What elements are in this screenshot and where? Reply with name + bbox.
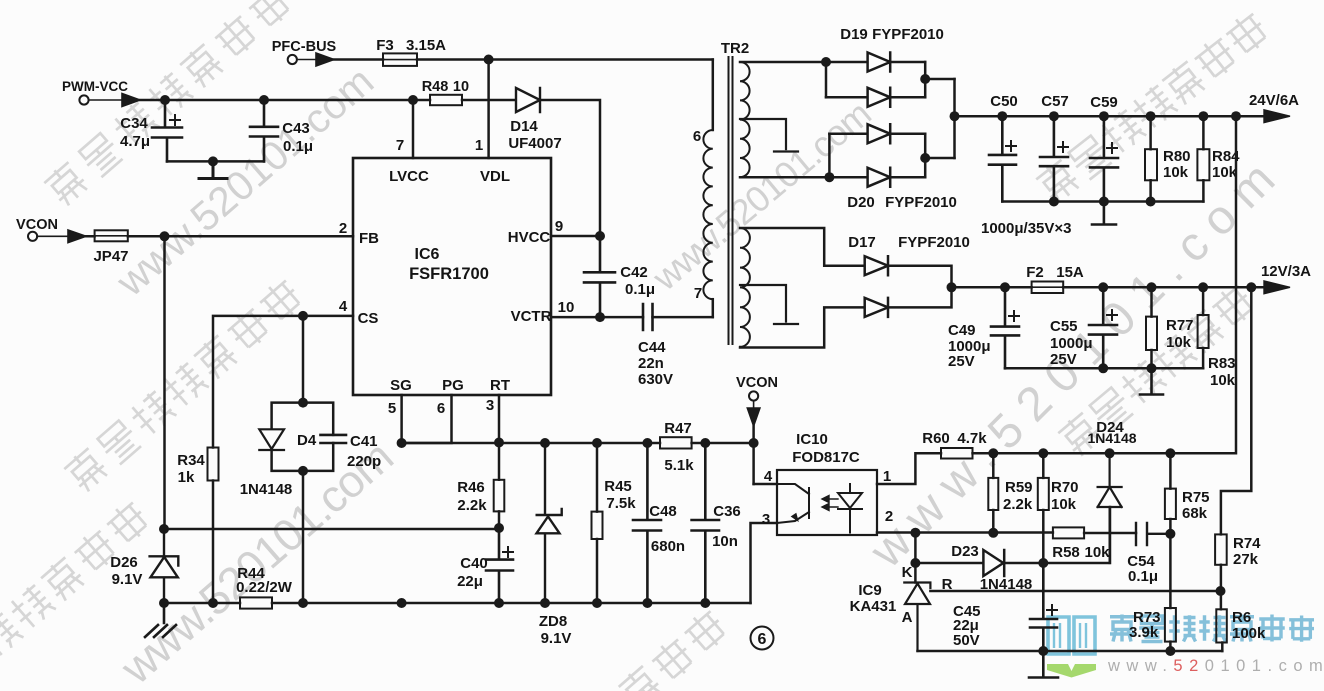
- node R75 top: [1165, 448, 1175, 458]
- wire JP47 to FB pin2: [86, 235, 353, 238]
- svg-text:R48: R48: [422, 79, 449, 95]
- resistor R70 10k: [1038, 453, 1079, 563]
- svg-text:C50: C50: [990, 93, 1018, 110]
- diode D14 UF4007: [508, 88, 561, 152]
- capacitor C43: [250, 100, 313, 161]
- svg-text:10k: 10k: [1166, 334, 1192, 351]
- svg-text:FYPF2010: FYPF2010: [885, 194, 957, 211]
- svg-text:1000μ: 1000μ: [1050, 335, 1093, 352]
- node FB-D26: [159, 524, 169, 534]
- svg-text:D4: D4: [297, 432, 317, 449]
- svg-text:C41: C41: [350, 433, 378, 450]
- svg-text:D14: D14: [510, 118, 538, 135]
- resistor R34 1k: [177, 448, 218, 604]
- ground below C34/C43: [199, 161, 227, 178]
- feedback top rail: [973, 116, 1237, 453]
- svg-text:1: 1: [475, 137, 483, 154]
- resistor R60 4.7k: [922, 430, 987, 459]
- svg-text:7: 7: [396, 137, 404, 154]
- svg-text:10k: 10k: [1051, 496, 1077, 513]
- node R84 top: [1198, 111, 1208, 121]
- svg-text:10: 10: [558, 299, 575, 316]
- node R80 top: [1146, 111, 1156, 121]
- watermark CJK top-left: [42, 0, 294, 208]
- transformer TR2 secondary 24V: [740, 62, 829, 177]
- svg-text:VDL: VDL: [480, 168, 510, 185]
- capacitor C54 0.1u: [1127, 523, 1170, 585]
- svg-text:0.22/2W: 0.22/2W: [236, 579, 293, 596]
- node pin7: [408, 95, 418, 105]
- diode D4 1N4148: [240, 429, 317, 498]
- svg-text:27k: 27k: [1233, 551, 1259, 568]
- svg-text:3.15A: 3.15A: [406, 37, 446, 54]
- node SG-row: [397, 438, 407, 448]
- svg-text:PG: PG: [442, 377, 464, 394]
- resistor R58 10k: [1052, 527, 1110, 561]
- capacitor C57: [1040, 93, 1069, 202]
- pin 7 stub: [412, 100, 415, 158]
- terminal VCON left: [16, 217, 58, 241]
- diode D23 1N4148: [951, 543, 1043, 593]
- blue CJK site name: [1110, 615, 1314, 642]
- rail nodes: [159, 598, 169, 608]
- svg-text:FOD817C: FOD817C: [792, 449, 860, 466]
- svg-text:2.2k: 2.2k: [1003, 496, 1033, 513]
- node C49 top: [1000, 282, 1010, 292]
- node C50 top: [997, 111, 1007, 121]
- resistor R73 3.9k: [1129, 534, 1176, 651]
- svg-text:R75: R75: [1182, 489, 1210, 506]
- node D4/C41 bottom: [298, 466, 308, 476]
- capacitor C50: [989, 93, 1018, 202]
- svg-text:4.7μ: 4.7μ: [120, 133, 150, 150]
- svg-text:1N4148: 1N4148: [1087, 430, 1136, 446]
- svg-text:1: 1: [883, 468, 891, 485]
- svg-text:HVCC: HVCC: [508, 229, 551, 246]
- wire 24V bus vertical: [953, 79, 956, 158]
- svg-text:R60: R60: [922, 430, 950, 447]
- node VDL branch: [484, 55, 494, 65]
- capacitor C48 680n: [633, 443, 685, 603]
- node C43 top: [259, 95, 269, 105]
- svg-text:6: 6: [437, 400, 445, 417]
- resistor R74 27k: [1215, 534, 1261, 591]
- node C59 top: [1099, 111, 1109, 121]
- node R77 top: [1147, 282, 1157, 292]
- svg-text:15A: 15A: [1056, 264, 1084, 281]
- svg-text:3: 3: [762, 511, 770, 528]
- IC6 FSFR1700 box: [353, 158, 552, 395]
- capacitor C34: [120, 100, 182, 161]
- svg-text:LVCC: LVCC: [389, 168, 429, 185]
- svg-text:R70: R70: [1051, 479, 1079, 496]
- node R59 top: [988, 448, 998, 458]
- node C36 top: [700, 438, 710, 448]
- svg-text:C43: C43: [282, 120, 310, 137]
- svg-text:C48: C48: [649, 503, 677, 520]
- resistor R75 68k: [1165, 453, 1210, 534]
- wire C34/C43 bottom link: [167, 160, 264, 163]
- svg-text:6: 6: [758, 631, 767, 648]
- arrow PFC-BUS: [297, 53, 334, 66]
- svg-text:JP47: JP47: [93, 248, 128, 265]
- svg-text:2: 2: [339, 220, 347, 237]
- svg-text:A: A: [902, 609, 913, 626]
- arrow 12V output: [1264, 281, 1290, 294]
- node D19 out: [920, 74, 930, 84]
- node K row: [910, 558, 920, 568]
- svg-text:D20: D20: [847, 194, 875, 211]
- wire R46-bottom long link: [164, 528, 499, 531]
- svg-text:FSFR1700: FSFR1700: [409, 265, 489, 283]
- pin 5 stub SG: [400, 395, 403, 443]
- capacitor C36 10n: [692, 443, 741, 603]
- diode D17a: [865, 256, 952, 287]
- primary ground rail: [164, 602, 751, 605]
- capacitor C45 22u 50V: [953, 563, 1057, 651]
- svg-text:PFC-BUS: PFC-BUS: [272, 39, 337, 55]
- wire IC10 pin3: [751, 523, 778, 603]
- node ZD8 top: [540, 438, 550, 448]
- wire D23 row to D24: [1043, 507, 1110, 563]
- pin 10 stub VCTR: [551, 316, 643, 319]
- node gnd tap: [208, 156, 218, 166]
- ground 12V: [1140, 368, 1163, 394]
- node R59 bottom: [988, 528, 998, 538]
- diode D17b: [865, 287, 952, 317]
- svg-text:C59: C59: [1090, 94, 1118, 111]
- svg-text:0.1μ: 0.1μ: [1128, 568, 1158, 585]
- wire R reference row: [930, 590, 1220, 593]
- chassis ground: [145, 603, 176, 637]
- 12V ground rail: [1005, 367, 1203, 370]
- svg-text:R80: R80: [1163, 148, 1191, 165]
- lower row y=443: [402, 442, 754, 445]
- node C34 top: [160, 95, 170, 105]
- logo book icon: [1048, 617, 1095, 654]
- svg-text:4.7k: 4.7k: [957, 430, 987, 447]
- svg-text:D23: D23: [951, 543, 979, 560]
- resistor R83 10k: [1198, 287, 1236, 389]
- node RT-row: [494, 438, 504, 448]
- node 12V sense: [1246, 282, 1256, 292]
- svg-text:FB: FB: [359, 230, 379, 247]
- svg-text:3: 3: [486, 397, 494, 414]
- resistor R59 2.2k: [988, 453, 1033, 533]
- svg-text:SG: SG: [390, 377, 412, 394]
- svg-text:IC10: IC10: [796, 431, 828, 448]
- wire K drop: [914, 533, 917, 583]
- node C54/R75: [1165, 529, 1175, 539]
- wire 12V sense drop: [1221, 287, 1251, 534]
- node R46/C40: [494, 523, 504, 533]
- svg-text:K: K: [902, 564, 913, 581]
- node D23/R70/C45: [1038, 558, 1048, 568]
- 12V rail to fuse: [952, 286, 1032, 289]
- node K branch: [910, 528, 920, 538]
- svg-text:UF4007: UF4007: [508, 135, 561, 152]
- wire D14 to HVCC drop: [539, 100, 600, 236]
- svg-text:D19: D19: [840, 26, 868, 43]
- wire K row to D23: [915, 562, 983, 565]
- svg-text:0.1μ: 0.1μ: [283, 138, 313, 155]
- wire IC10 pin4: [754, 483, 777, 486]
- wire PWM-VCC to R48: [140, 99, 430, 102]
- node 12V takeoff: [947, 282, 957, 292]
- svg-text:680n: 680n: [651, 538, 685, 555]
- 12V rail: [1063, 286, 1264, 289]
- watermark CJK left-edge partial: [0, 498, 153, 691]
- svg-text:10k: 10k: [1212, 164, 1238, 181]
- svg-text:25V: 25V: [948, 353, 975, 370]
- wire D20 out to bus: [925, 157, 954, 160]
- node R70 top: [1038, 448, 1048, 458]
- node sec1 bottom: [824, 172, 834, 182]
- wire VDL pin1 drop: [487, 60, 490, 159]
- wire D19 cathode join: [924, 62, 927, 97]
- wire D19 out to bus: [925, 78, 954, 81]
- capacitor C49 1000u 25V: [948, 287, 1019, 370]
- svg-text:R47: R47: [664, 420, 692, 437]
- resistor R44 0.22/2W: [236, 565, 293, 609]
- svg-text:2: 2: [885, 508, 893, 525]
- svg-text:10k: 10k: [1163, 164, 1189, 181]
- svg-text:RT: RT: [490, 377, 510, 394]
- node C45 bottom: [1038, 646, 1048, 656]
- fuse F3 3.15A: [376, 37, 446, 66]
- capacitor C41 220p: [321, 433, 382, 470]
- node R73 bottom: [1165, 646, 1175, 656]
- node 24V sense: [1231, 111, 1241, 121]
- svg-text:FYPF2010: FYPF2010: [898, 234, 970, 251]
- diode D20b: [829, 168, 925, 187]
- wire sec1 bottom branch up: [828, 134, 831, 177]
- svg-text:3.9k: 3.9k: [1129, 624, 1159, 641]
- svg-text:C49: C49: [948, 322, 976, 339]
- svg-text:PWM-VCC: PWM-VCC: [62, 79, 128, 94]
- transformer TR2 secondary 12V: [740, 228, 865, 348]
- svg-text:4: 4: [339, 298, 348, 315]
- resistor R84 10k: [1197, 116, 1240, 201]
- svg-text:C40: C40: [460, 555, 488, 572]
- svg-text:C42: C42: [620, 264, 648, 281]
- svg-text:IC9: IC9: [858, 582, 881, 599]
- pin 6 stub PG: [402, 395, 452, 443]
- svg-text:5: 5: [388, 400, 396, 417]
- svg-text:7: 7: [694, 285, 702, 302]
- svg-text:www.520101.com: www.520101.com: [1107, 657, 1324, 675]
- capacitor C55 1000u 25V: [1050, 287, 1117, 368]
- svg-text:IC6: IC6: [415, 246, 440, 263]
- wire FB branch down: [163, 236, 166, 529]
- svg-text:50V: 50V: [953, 632, 980, 649]
- resistor R48 10: [422, 79, 469, 105]
- svg-text:R77: R77: [1166, 317, 1194, 334]
- svg-text:VCON: VCON: [16, 217, 58, 233]
- svg-text:68k: 68k: [1182, 505, 1208, 522]
- node FB branch: [160, 231, 170, 241]
- svg-text:1N4148: 1N4148: [240, 481, 293, 498]
- wire F3 to TR2 primary top: [417, 58, 713, 61]
- svg-text:9.1V: 9.1V: [112, 571, 143, 588]
- terminal PFC-BUS: [272, 39, 337, 64]
- resistor R47 5.1k: [660, 420, 694, 474]
- svg-text:R34: R34: [177, 452, 205, 469]
- wire D20 cathode join: [924, 134, 927, 177]
- svg-text:22n: 22n: [638, 355, 664, 372]
- svg-text:0.1μ: 0.1μ: [625, 281, 655, 298]
- fuse F2 15A: [1026, 264, 1084, 293]
- svg-text:CS: CS: [358, 310, 379, 327]
- watermark CJK mid-left: [62, 276, 305, 494]
- svg-text:22μ: 22μ: [457, 573, 483, 590]
- node 24V takeoff: [950, 111, 960, 121]
- ground secondary: [1029, 651, 1058, 678]
- wire CS pin4: [213, 316, 353, 448]
- transformer core: [729, 57, 733, 344]
- svg-text:10k: 10k: [1210, 372, 1236, 389]
- svg-text:R59: R59: [1005, 479, 1033, 496]
- svg-text:R58: R58: [1052, 544, 1080, 561]
- wire R48 to D14: [462, 99, 515, 102]
- pin 9 stub HVCC: [551, 235, 600, 238]
- capacitor C59: [1090, 94, 1118, 202]
- arrow VCON down: [747, 401, 760, 426]
- svg-text:220p: 220p: [347, 453, 381, 470]
- resistor R80 10k: [1145, 116, 1191, 201]
- svg-text:ZD8: ZD8: [539, 613, 567, 630]
- svg-text:D17: D17: [848, 234, 876, 251]
- node R83 top: [1198, 282, 1208, 292]
- arrow VCON left: [37, 230, 86, 243]
- watermark CJK mid-right: [1056, 281, 1258, 458]
- shunt reg IC9 KA431: [850, 564, 953, 651]
- node C57 top: [1049, 111, 1059, 121]
- zener ZD8 9.1V: [537, 443, 572, 647]
- svg-text:4: 4: [764, 468, 773, 485]
- wire sec1 branch down: [825, 62, 828, 97]
- pin 3 stub RT: [498, 395, 501, 442]
- page number 6: [751, 627, 774, 650]
- 24V rail: [955, 115, 1265, 118]
- node D24 top: [1105, 448, 1115, 458]
- svg-text:C55: C55: [1050, 318, 1078, 335]
- svg-text:2.2k: 2.2k: [457, 497, 487, 514]
- zener D26 9.1V: [110, 529, 178, 603]
- arrow 24V output: [1264, 110, 1290, 123]
- node HVCC: [595, 231, 605, 241]
- svg-text:7.5k: 7.5k: [606, 495, 636, 512]
- node CS branch: [298, 311, 308, 321]
- svg-text:KA431: KA431: [850, 598, 897, 615]
- watermark CJK bottom-center: [584, 607, 731, 691]
- svg-text:R46: R46: [457, 479, 485, 496]
- svg-text:R6: R6: [1232, 609, 1251, 626]
- resistor R45 7.5k: [592, 443, 637, 603]
- node D20 out: [920, 153, 930, 163]
- node VCTR: [595, 312, 605, 322]
- arrow PWM-VCC: [89, 94, 140, 107]
- svg-text:C44: C44: [638, 339, 666, 356]
- svg-text:5.1k: 5.1k: [664, 457, 694, 474]
- resistor R46 2.2k: [457, 443, 504, 529]
- svg-text:D26: D26: [110, 554, 138, 571]
- node sec1 top: [821, 57, 831, 67]
- svg-text:10: 10: [453, 79, 469, 95]
- svg-text:F3: F3: [376, 37, 394, 54]
- svg-text:C36: C36: [713, 503, 741, 520]
- watermark CJK top-right: [1034, 9, 1271, 205]
- wire CS to D4/C41 top: [302, 316, 305, 403]
- svg-text:TR2: TR2: [721, 40, 749, 57]
- resistor R77 10k: [1146, 287, 1194, 368]
- svg-text:R45: R45: [604, 478, 632, 495]
- node C55 top: [1098, 282, 1108, 292]
- wire PFC-BUS to F3: [334, 58, 383, 61]
- svg-text:1k: 1k: [178, 469, 195, 486]
- node D4/C41 top: [298, 398, 308, 408]
- logo green ribbon: [1047, 664, 1096, 678]
- wire VCON to row: [752, 426, 755, 484]
- svg-text:VCON: VCON: [736, 375, 778, 391]
- diode D19b: [826, 88, 925, 107]
- svg-text:25V: 25V: [1050, 351, 1077, 368]
- node C48 top: [642, 438, 652, 448]
- 24V ground rail: [1002, 200, 1203, 203]
- wire D4/C41 frame: [272, 403, 334, 603]
- svg-text:FYPF2010: FYPF2010: [872, 26, 944, 43]
- svg-text:F2: F2: [1026, 264, 1044, 281]
- node R45 top: [592, 438, 602, 448]
- svg-text:100k: 100k: [1232, 625, 1266, 642]
- svg-text:VCTR: VCTR: [511, 308, 552, 325]
- svg-text:C57: C57: [1041, 93, 1069, 110]
- wire A row: [918, 650, 1223, 653]
- svg-text:630V: 630V: [638, 371, 673, 388]
- wire IC10 pin1 to R60: [877, 453, 941, 484]
- node VCON row: [749, 438, 759, 448]
- svg-text:24V/6A: 24V/6A: [1249, 92, 1299, 109]
- svg-text:9: 9: [555, 218, 563, 235]
- svg-text:10n: 10n: [712, 533, 738, 550]
- diode D20a: [829, 124, 925, 143]
- capacitor C44 22n 630V: [638, 304, 713, 388]
- pin2 / R58 row: [877, 531, 1136, 534]
- capacitor C42: [584, 236, 655, 317]
- svg-text:C34: C34: [120, 115, 148, 132]
- svg-text:9.1V: 9.1V: [541, 630, 572, 647]
- terminal PWM-VCC: [62, 79, 128, 105]
- diode D24 1N4148: [1087, 419, 1136, 563]
- svg-text:10k: 10k: [1084, 544, 1110, 561]
- terminal VCON mid: [736, 375, 778, 401]
- svg-text:1000μ/35V×3: 1000μ/35V×3: [981, 220, 1072, 237]
- resistor R6 100k: [1216, 591, 1266, 651]
- svg-text:12V/3A: 12V/3A: [1261, 263, 1311, 280]
- optocoupler IC10 FOD817C: [762, 431, 893, 535]
- capacitor C40 22u: [457, 528, 513, 603]
- svg-text:R83: R83: [1208, 355, 1236, 372]
- ground 24V: [1092, 202, 1116, 225]
- node R74/R6/R: [1216, 586, 1226, 596]
- svg-text:R74: R74: [1233, 535, 1261, 552]
- svg-text:6: 6: [693, 128, 701, 145]
- fuse JP47: [93, 230, 128, 265]
- diode D19a: [826, 53, 925, 72]
- transformer TR2 primary winding: [693, 60, 713, 318]
